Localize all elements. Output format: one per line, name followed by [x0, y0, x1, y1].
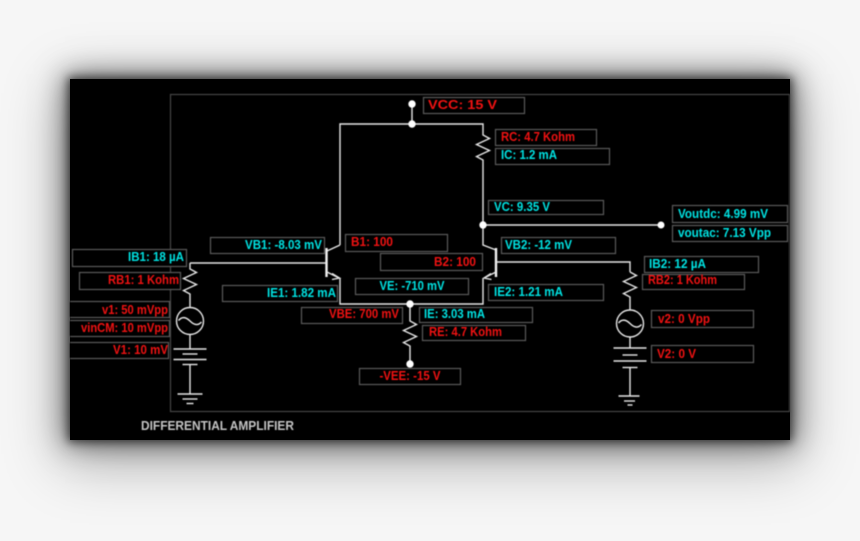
svg-text:IE: 3.03 mA: IE: 3.03 mA	[424, 306, 485, 321]
svg-text:V1: 10 mV: V1: 10 mV	[113, 342, 168, 357]
svg-text:B2: 100: B2: 100	[434, 254, 476, 269]
svg-text:v2: 0 Vpp: v2: 0 Vpp	[658, 311, 710, 326]
svg-text:V2: 0 V: V2: 0 V	[657, 346, 696, 361]
svg-text:VB1: -8.03 mV: VB1: -8.03 mV	[245, 237, 322, 252]
svg-text:IE2: 1.21 mA: IE2: 1.21 mA	[494, 284, 563, 299]
svg-text:VC: 9.35 V: VC: 9.35 V	[494, 199, 550, 214]
svg-text:-VEE: -15 V: -VEE: -15 V	[380, 368, 441, 383]
svg-text:VE: -710 mV: VE: -710 mV	[380, 278, 445, 293]
svg-text:VCC: 15 V: VCC: 15 V	[428, 97, 498, 112]
svg-text:voutac: 7.13 Vpp: voutac: 7.13 Vpp	[678, 225, 771, 240]
svg-text:IE1: 1.82 mA: IE1: 1.82 mA	[267, 285, 336, 300]
svg-text:DIFFERENTIAL AMPLIFIER: DIFFERENTIAL AMPLIFIER	[141, 418, 294, 433]
svg-text:B1: 100: B1: 100	[351, 234, 393, 249]
svg-text:v1: 50 mVpp: v1: 50 mVpp	[102, 302, 168, 317]
svg-text:VB2: -12 mV: VB2: -12 mV	[505, 237, 572, 252]
svg-text:RB2: 1 Kohm: RB2: 1 Kohm	[648, 272, 717, 287]
svg-text:RE: 4.7 Kohm: RE: 4.7 Kohm	[429, 324, 502, 339]
svg-text:IC: 1.2 mA: IC: 1.2 mA	[501, 147, 557, 162]
svg-text:RC: 4.7 Kohm: RC: 4.7 Kohm	[501, 129, 575, 144]
svg-text:VBE: 700 mV: VBE: 700 mV	[329, 306, 399, 321]
svg-text:Voutdc: 4.99 mV: Voutdc: 4.99 mV	[678, 206, 768, 221]
svg-text:vinCM: 10 mVpp: vinCM: 10 mVpp	[81, 320, 168, 335]
svg-text:IB2: 12 µA: IB2: 12 µA	[649, 256, 706, 271]
svg-text:RB1: 1 Kohm: RB1: 1 Kohm	[108, 272, 179, 287]
svg-text:IB1: 18 µA: IB1: 18 µA	[128, 249, 184, 264]
